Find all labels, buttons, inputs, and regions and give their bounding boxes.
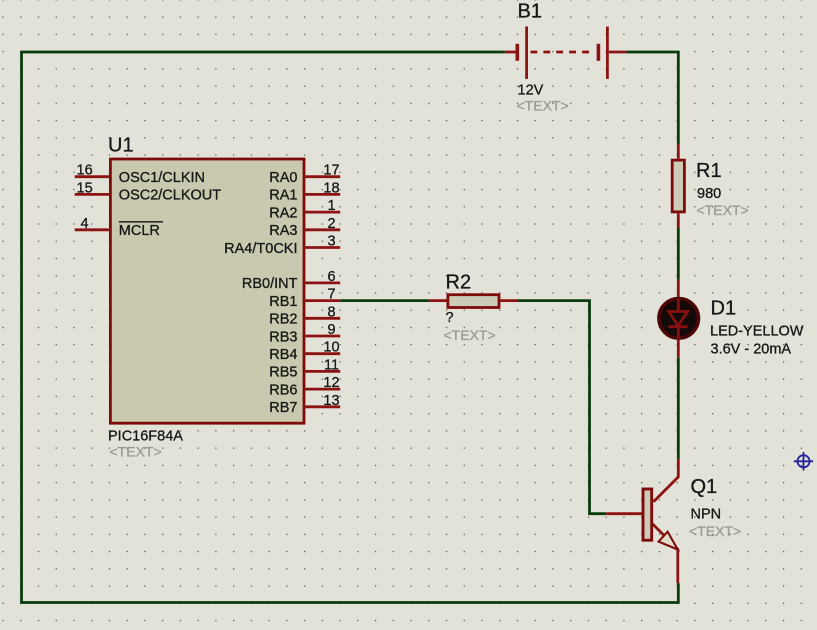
tall plate right: [606, 27, 609, 79]
tall plate left: [525, 27, 528, 79]
pin 7 RB1: [304, 299, 340, 302]
svg-text:7: 7: [327, 287, 335, 303]
svg-text:RB0/INT: RB0/INT: [242, 276, 298, 292]
svg-text:RB6: RB6: [269, 382, 297, 398]
svg-text:B1: B1: [518, 1, 542, 23]
svg-text:<TEXT>: <TEXT>: [697, 202, 749, 218]
pin 9 RB3: [304, 335, 340, 338]
pin 4 MCLR: [75, 228, 110, 231]
pin 1 RA2: [304, 211, 340, 214]
pin stub left: [505, 51, 516, 54]
svg-text:16: 16: [77, 163, 93, 179]
short plate left: [515, 44, 519, 61]
pin 8 RB2: [304, 317, 340, 320]
pin 17 RA0: [304, 175, 340, 178]
collector red: [654, 459, 679, 502]
resistor R1: [672, 144, 748, 227]
pin 2 RA3: [304, 228, 340, 231]
svg-text:3.6V - 20mA: 3.6V - 20mA: [711, 342, 792, 358]
svg-text:<TEXT>: <TEXT>: [444, 327, 496, 343]
svg-text:980: 980: [697, 186, 721, 202]
pin 16 OSC1/CLKIN: [75, 175, 110, 178]
transistor Q1: [606, 459, 741, 583]
svg-text:12V: 12V: [518, 83, 544, 99]
svg-text:RA1: RA1: [269, 188, 297, 204]
pin stub right: [609, 51, 627, 54]
svg-text:D1: D1: [711, 298, 737, 320]
svg-text:R1: R1: [696, 160, 722, 182]
resistor R2: [429, 271, 518, 343]
svg-text:RA3: RA3: [269, 223, 297, 239]
svg-text:<TEXT>: <TEXT>: [110, 444, 162, 460]
svg-text:RA4/T0CKI: RA4/T0CKI: [224, 241, 297, 257]
dashed link: [531, 51, 590, 54]
svg-text:RA2: RA2: [269, 205, 297, 221]
base pin stub: [606, 512, 641, 515]
svg-text:6: 6: [327, 269, 335, 285]
svg-text:PIC16F84A: PIC16F84A: [108, 429, 183, 445]
svg-text:12: 12: [323, 375, 339, 391]
svg-text:Q1: Q1: [691, 476, 718, 498]
pin 11 RB5: [304, 370, 340, 373]
wire: battery right to top-right corner down to R1: [626, 52, 678, 144]
svg-text:1: 1: [327, 198, 335, 214]
svg-text:RB2: RB2: [269, 312, 297, 328]
pin 15 OSC2/CLKOUT: [75, 193, 110, 196]
emitter red: [653, 524, 678, 583]
U1 left pins: [75, 163, 222, 239]
svg-text:9: 9: [327, 322, 335, 338]
svg-text:<TEXT>: <TEXT>: [689, 523, 741, 539]
svg-text:RB5: RB5: [269, 365, 297, 381]
wire: RB1 to R2: [340, 299, 429, 302]
wire: R1 bottom to D1 top: [677, 228, 680, 280]
emitter arrow: [659, 532, 678, 550]
svg-text:11: 11: [324, 357, 339, 373]
svg-text:MCLR: MCLR: [119, 223, 160, 239]
svg-text:OSC1/CLKIN: OSC1/CLKIN: [119, 170, 205, 186]
svg-text:RB4: RB4: [269, 347, 297, 363]
pin 13 RB7: [304, 405, 340, 408]
svg-text:18: 18: [323, 180, 339, 196]
svg-text:RB3: RB3: [269, 329, 297, 345]
svg-text:RB7: RB7: [269, 400, 297, 416]
svg-text:R2: R2: [446, 271, 472, 293]
svg-text:NPN: NPN: [691, 507, 722, 523]
svg-text:13: 13: [323, 393, 339, 409]
IC U1 PIC16F84A: [108, 135, 304, 460]
pin 18 RA1: [304, 193, 340, 196]
svg-text:OSC2/CLKOUT: OSC2/CLKOUT: [119, 188, 221, 204]
svg-text:RA0: RA0: [269, 170, 297, 186]
pin 12 RB6: [304, 388, 340, 391]
svg-text:3: 3: [327, 234, 335, 250]
svg-text:RB1: RB1: [269, 294, 297, 310]
svg-text:<TEXT>: <TEXT>: [517, 98, 569, 114]
svg-text:4: 4: [81, 216, 89, 232]
pin 6 RB0/INT: [304, 281, 340, 284]
wire: main loop top-left segment: [22, 52, 679, 603]
svg-text:U1: U1: [108, 135, 134, 157]
short plate right: [597, 44, 601, 61]
svg-text:8: 8: [327, 304, 335, 320]
pin 10 RB4: [304, 352, 340, 355]
battery B1: [505, 1, 627, 114]
base bar: [643, 489, 652, 540]
svg-text:15: 15: [77, 180, 93, 196]
svg-text:10: 10: [323, 340, 339, 356]
svg-text:17: 17: [323, 163, 339, 179]
LED D1: [659, 279, 804, 357]
U1 right pins: [224, 163, 340, 416]
pin 3 RA4/T0CKI: [304, 246, 340, 249]
wire: D1 bottom to Q1 collector: [677, 357, 680, 459]
svg-text:LED-YELLOW: LED-YELLOW: [710, 324, 804, 340]
origin marker: [794, 452, 813, 471]
wire: R2 to Q1 base routing: [518, 301, 607, 514]
svg-text:?: ?: [446, 310, 454, 326]
svg-text:2: 2: [327, 216, 335, 232]
